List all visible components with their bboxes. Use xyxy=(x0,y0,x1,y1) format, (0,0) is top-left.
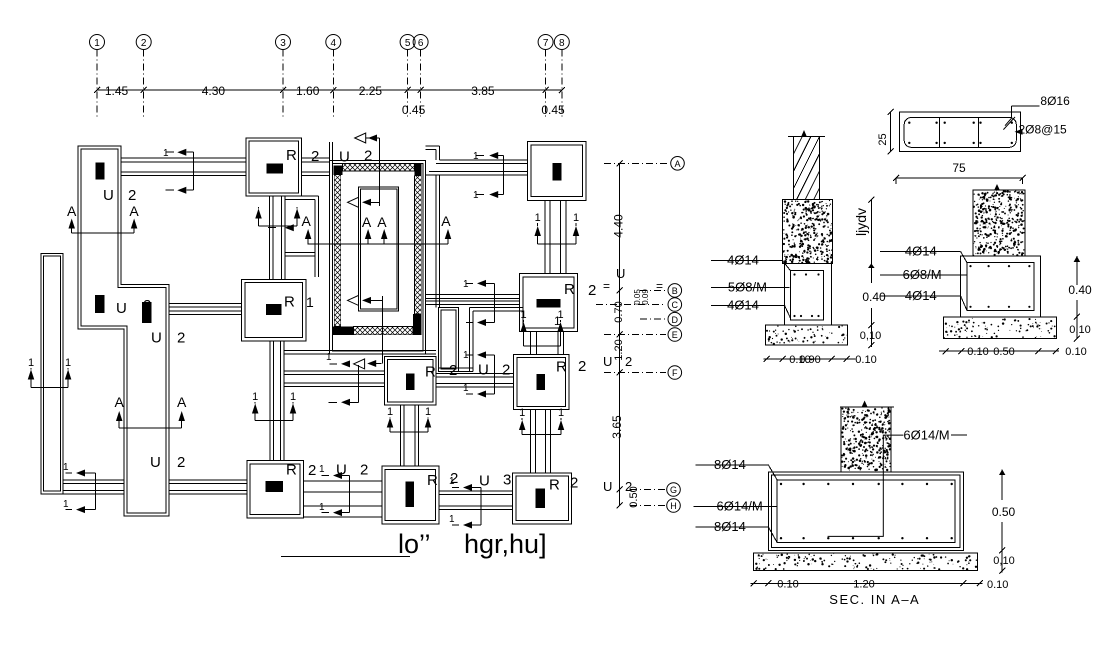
d3 footing box xyxy=(961,256,1041,317)
wall W11b xyxy=(284,370,385,372)
svg-text:2: 2 xyxy=(141,38,147,49)
wall W15 xyxy=(63,479,124,481)
svg-text:U: U xyxy=(603,354,612,369)
svg-text:A: A xyxy=(67,203,77,219)
svg-text:R: R xyxy=(284,294,295,311)
svg-text:0.45: 0.45 xyxy=(402,103,426,117)
svg-text:2: 2 xyxy=(588,282,596,299)
svg-text:2: 2 xyxy=(364,148,372,165)
svg-text:A: A xyxy=(302,213,312,229)
d2 label 5d8/M xyxy=(711,286,790,288)
footing pad top-right xyxy=(528,142,587,201)
svg-text:2: 2 xyxy=(578,358,586,375)
grid bubble 3 xyxy=(276,35,291,50)
svg-text:3: 3 xyxy=(503,472,511,489)
d4 rebar box xyxy=(777,480,955,543)
wall W21 xyxy=(439,367,474,369)
d2 column stipple xyxy=(783,200,833,264)
grid bubble 2 xyxy=(136,35,151,50)
wall W1 pad-to-R2 xyxy=(121,157,246,159)
shaft hatch band top xyxy=(343,164,415,171)
footing pad U2 tall left (inner) xyxy=(81,149,166,513)
svg-text:U: U xyxy=(616,266,625,281)
wall W3 shaft-to-topright xyxy=(439,159,527,161)
svg-text:1.45: 1.45 xyxy=(105,84,129,98)
section line A-A segment xyxy=(308,243,448,245)
svg-text:0.40: 0.40 xyxy=(862,290,886,304)
svg-text:0.50: 0.50 xyxy=(993,346,1014,358)
column black vert 4 xyxy=(405,482,414,508)
footing pad R1 mid-left xyxy=(242,279,306,341)
svg-text:R: R xyxy=(549,477,560,494)
svg-text:C: C xyxy=(672,300,679,310)
d2 base slab stipple xyxy=(766,325,848,345)
dim label 1.45 xyxy=(104,84,130,95)
svg-text:0.09: 0.09 xyxy=(641,289,650,305)
svg-text:25: 25 xyxy=(877,133,889,145)
svg-text:A: A xyxy=(129,203,139,219)
grid line C xyxy=(596,304,666,306)
wall stub W9a xyxy=(285,195,319,197)
top dimension line xyxy=(97,89,562,91)
svg-text:R: R xyxy=(564,281,575,298)
column black vert 2 xyxy=(406,373,415,390)
svg-text:1: 1 xyxy=(535,212,541,224)
svg-text:0.10: 0.10 xyxy=(1065,346,1086,358)
d2 wall top tick xyxy=(788,136,825,138)
wall stub W9b xyxy=(285,252,315,254)
section line 1-1 top arrow xyxy=(355,133,366,143)
svg-text:0,10: 0,10 xyxy=(1069,324,1090,336)
grid line F xyxy=(604,372,666,374)
wall W11c xyxy=(436,372,514,374)
column black vertical xyxy=(552,163,561,180)
svg-text:1: 1 xyxy=(63,462,69,473)
svg-text:2: 2 xyxy=(177,454,185,471)
svg-text:2: 2 xyxy=(308,462,316,479)
svg-text:7: 7 xyxy=(543,38,549,49)
svg-text:0.45: 0.45 xyxy=(541,103,565,117)
d3 dim line right xyxy=(1076,256,1078,285)
svg-text:0.10: 0.10 xyxy=(987,579,1008,591)
svg-text:R: R xyxy=(286,462,297,479)
wall W8 xyxy=(269,341,271,461)
svg-text:A: A xyxy=(377,214,387,230)
svg-text:1: 1 xyxy=(473,190,479,201)
svg-text:6Ø14/M: 6Ø14/M xyxy=(717,499,763,514)
wall W5 xyxy=(530,332,532,355)
wall W10 strip-to-R1 xyxy=(169,303,242,305)
svg-text:1: 1 xyxy=(63,499,69,510)
svg-text:8Ø16: 8Ø16 xyxy=(1040,94,1070,108)
svg-text:2: 2 xyxy=(128,187,136,204)
beam dim 25 xyxy=(890,112,892,151)
column black horiz 2 xyxy=(266,304,282,315)
shaft bottom cut assembly xyxy=(329,363,337,365)
svg-text:U: U xyxy=(603,479,612,494)
svg-text:1: 1 xyxy=(65,357,71,369)
wall W18 xyxy=(426,294,520,296)
svg-text:R: R xyxy=(427,472,438,489)
cut marks L5 xyxy=(452,487,459,489)
d3 dim 75 xyxy=(896,177,1023,179)
wall W16 xyxy=(169,479,247,481)
svg-text:lo’’: lo’’ xyxy=(398,529,431,559)
svg-text:1: 1 xyxy=(463,383,469,394)
svg-text:6Ø14/M: 6Ø14/M xyxy=(903,427,949,442)
svg-text:D: D xyxy=(672,315,679,325)
svg-text:2: 2 xyxy=(311,148,319,165)
svg-text:0,10: 0,10 xyxy=(860,330,881,342)
svg-text:U: U xyxy=(478,362,489,379)
d3 column stipple xyxy=(973,190,1025,256)
svg-text:U: U xyxy=(150,454,161,471)
svg-text:3: 3 xyxy=(280,38,286,49)
narrow room right of shaft xyxy=(439,308,459,372)
footing pad R2 row2 right xyxy=(519,273,577,331)
svg-text:U: U xyxy=(151,330,162,347)
svg-text:8: 8 xyxy=(559,38,565,49)
svg-text:SEC. IN A–A: SEC. IN A–A xyxy=(829,592,920,607)
narrow pier left xyxy=(41,253,63,494)
svg-text:8Ø14: 8Ø14 xyxy=(714,519,746,534)
footing pad R2 bottom-right xyxy=(513,473,572,524)
svg-text:A: A xyxy=(177,394,187,410)
svg-text:0.50: 0.50 xyxy=(628,486,640,507)
beam section inner xyxy=(904,118,1016,148)
shaft top-left stub xyxy=(329,142,331,161)
wall W3 step xyxy=(426,145,440,147)
svg-text:4: 4 xyxy=(331,38,337,49)
cut marks L4 xyxy=(322,475,329,477)
footing pad R2 mid xyxy=(385,357,437,406)
grid bubble 6 xyxy=(413,35,428,50)
shaft hatch band bottom xyxy=(354,326,413,334)
column C2 black xyxy=(95,295,105,313)
svg-text:hgr,hu]: hgr,hu] xyxy=(464,529,547,559)
wall W14 xyxy=(439,490,513,492)
svg-text:2: 2 xyxy=(177,330,185,347)
d4 footing outer xyxy=(768,472,963,551)
beam section outer xyxy=(900,112,1021,151)
svg-text:1: 1 xyxy=(163,148,169,159)
grid line D xyxy=(640,318,666,320)
footing pad R2 row1 xyxy=(246,138,302,196)
svg-text:ljydv: ljydv xyxy=(853,208,869,236)
svg-text:1.20: 1.20 xyxy=(853,579,874,591)
footing pad U2 tall left (outer) xyxy=(78,146,169,516)
svg-text:1: 1 xyxy=(473,151,479,162)
svg-text:E: E xyxy=(672,330,678,340)
d4 bottom dim xyxy=(751,582,983,584)
d2 footing box xyxy=(785,263,832,325)
svg-text:1: 1 xyxy=(94,38,100,49)
svg-text:2: 2 xyxy=(625,354,632,369)
cut marks L2 xyxy=(476,155,485,157)
d4 column stipple xyxy=(841,407,891,472)
svg-text:U: U xyxy=(116,300,127,317)
column C1 black xyxy=(96,163,105,180)
dim label 4.30 xyxy=(200,84,226,95)
wall W4 vertical right col xyxy=(544,200,546,273)
wall W11 below shaft xyxy=(284,350,436,352)
svg-text:2: 2 xyxy=(143,297,151,314)
svg-text:1: 1 xyxy=(558,407,564,419)
shaft outer rect xyxy=(330,161,426,355)
grid bubble 1 xyxy=(90,35,105,50)
dim label 3.85 xyxy=(470,84,496,95)
svg-text:3.65: 3.65 xyxy=(610,415,624,439)
svg-text:2: 2 xyxy=(570,475,578,492)
cut marks L1 xyxy=(166,151,174,153)
dim label 2.25 xyxy=(357,84,383,95)
d2 label 4d14 top xyxy=(711,260,783,262)
column black horiz xyxy=(536,299,560,308)
shaft upper cut arrows xyxy=(348,197,359,207)
svg-text:4Ø14: 4Ø14 xyxy=(905,244,937,259)
d3 base slab stipple xyxy=(943,317,1056,339)
cut marks L11 xyxy=(466,354,473,356)
d3 label 4d14 bottom xyxy=(880,295,961,297)
svg-text:U: U xyxy=(103,187,114,204)
grid line B xyxy=(640,289,666,291)
cut marks L10 xyxy=(466,282,473,284)
svg-text:1: 1 xyxy=(290,391,296,403)
d3 label 6d8/M xyxy=(880,274,967,276)
grid bubble 8 xyxy=(554,35,569,50)
svg-text:1.20: 1.20 xyxy=(613,339,625,360)
footing pad R2 bottom-mid xyxy=(382,466,439,524)
svg-text:H: H xyxy=(670,501,677,511)
grid bubble 5 xyxy=(400,35,415,50)
d3 bottom dim xyxy=(939,350,1059,352)
svg-text:75: 75 xyxy=(952,161,966,175)
shaft black corner BL xyxy=(333,326,354,335)
d3 rebar box xyxy=(967,263,1034,311)
grid bubble 7 xyxy=(538,35,553,50)
stair well inner rect xyxy=(358,187,398,311)
svg-text:A: A xyxy=(362,214,372,230)
svg-text:1: 1 xyxy=(252,391,258,403)
grid line G xyxy=(630,489,665,491)
d2 bottom dim xyxy=(764,358,856,360)
d4 label 8d14 top xyxy=(695,464,768,466)
svg-text:2: 2 xyxy=(502,362,510,379)
svg-text:1: 1 xyxy=(557,309,563,321)
beam rebar dots xyxy=(908,122,910,124)
svg-text:B: B xyxy=(672,286,678,296)
grid line A xyxy=(604,162,668,164)
d4 base slab stipple xyxy=(754,553,978,571)
column black vert 3 xyxy=(536,374,545,390)
svg-text:0.10: 0.10 xyxy=(777,579,798,591)
svg-text:4Ø14: 4Ø14 xyxy=(727,297,759,312)
svg-text:4.40: 4.40 xyxy=(612,214,626,238)
svg-text:0.50: 0.50 xyxy=(992,505,1016,519)
svg-text:4.30: 4.30 xyxy=(202,84,226,98)
d3 label 4d14 top xyxy=(880,251,961,253)
svg-text:4Ø14: 4Ø14 xyxy=(905,288,937,303)
wall W6 xyxy=(530,410,532,473)
svg-text:1: 1 xyxy=(573,212,579,224)
svg-text:=: = xyxy=(656,279,663,293)
svg-text:A: A xyxy=(674,159,680,169)
cut marks L3 xyxy=(65,472,72,474)
svg-text:1: 1 xyxy=(326,352,332,363)
svg-text:0.70: 0.70 xyxy=(613,301,625,322)
svg-text:1: 1 xyxy=(519,407,525,419)
svg-text:0.40: 0.40 xyxy=(1068,283,1092,297)
svg-text:1: 1 xyxy=(463,350,469,361)
d4 label 8d14 bottom xyxy=(695,526,768,528)
d4 column top line xyxy=(840,406,894,408)
d4 dim line right xyxy=(1001,469,1003,500)
svg-text:G: G xyxy=(670,485,677,495)
svg-text:0.90: 0.90 xyxy=(799,354,820,366)
svg-text:1: 1 xyxy=(319,464,325,475)
right grid dim line xyxy=(619,163,621,505)
grid line H xyxy=(630,505,665,507)
svg-text:=: = xyxy=(603,279,610,293)
wall W20 L-shape xyxy=(469,308,471,372)
svg-text:1: 1 xyxy=(387,406,393,418)
svg-text:0.10: 0.10 xyxy=(967,346,988,358)
svg-text:U: U xyxy=(479,473,490,490)
svg-text:1: 1 xyxy=(319,502,325,513)
svg-text:1: 1 xyxy=(28,357,34,369)
wall W7 below R2 xyxy=(269,196,271,279)
svg-text:1: 1 xyxy=(521,309,527,321)
shaft hatch band left xyxy=(334,174,340,326)
d2 dim line right xyxy=(870,200,872,283)
beam dividers xyxy=(938,118,940,148)
svg-text:5: 5 xyxy=(405,38,411,49)
svg-text:8Ø14: 8Ø14 xyxy=(714,457,746,472)
d4 label 6d14/M left xyxy=(694,505,778,507)
d2 label 4d14 bottom xyxy=(711,304,785,306)
wall W19 vertical xyxy=(435,175,437,307)
svg-text:5Ø8/M: 5Ø8/M xyxy=(728,279,767,294)
svg-text:2.25: 2.25 xyxy=(359,84,383,98)
column black horiz 3 xyxy=(266,481,284,492)
svg-text:1.60: 1.60 xyxy=(296,84,320,98)
svg-text:2Ø8@15: 2Ø8@15 xyxy=(1019,123,1068,137)
shaft black corner TL xyxy=(334,166,343,176)
svg-text:A: A xyxy=(441,213,451,229)
column R2a black xyxy=(266,163,283,173)
svg-text:3.85: 3.85 xyxy=(471,84,495,98)
wall W2 R2-to-shaft xyxy=(302,157,330,159)
title underline xyxy=(281,556,410,558)
svg-text:R: R xyxy=(556,359,567,376)
shaft lower cut arrows xyxy=(348,295,359,305)
svg-text:1: 1 xyxy=(449,476,455,487)
shaft black corner TR xyxy=(415,164,422,176)
svg-text:0,10: 0,10 xyxy=(993,555,1014,567)
wall W13 xyxy=(303,480,382,482)
svg-text:1: 1 xyxy=(425,406,431,418)
wall W12 xyxy=(399,405,401,466)
shaft black corner BR xyxy=(413,314,422,335)
svg-text:0.10: 0.10 xyxy=(855,354,876,366)
shaft hatch band right xyxy=(415,176,422,314)
d2 rebar box xyxy=(790,271,823,320)
svg-text:R: R xyxy=(286,147,297,164)
column C3 black xyxy=(142,302,152,323)
svg-text:2: 2 xyxy=(360,462,368,479)
svg-text:6: 6 xyxy=(418,38,424,49)
svg-text:6Ø8/M: 6Ø8/M xyxy=(903,267,942,282)
svg-text:1: 1 xyxy=(449,514,455,525)
svg-text:A: A xyxy=(115,394,125,410)
column black vert 5 xyxy=(536,489,546,508)
grid line E xyxy=(604,334,666,336)
svg-text:4Ø14: 4Ø14 xyxy=(727,253,759,268)
svg-text:1: 1 xyxy=(306,294,314,310)
svg-text:F: F xyxy=(672,368,678,378)
grid bubble 4 xyxy=(326,35,341,50)
footing pad R2 bottom-left xyxy=(247,461,303,518)
svg-text:1: 1 xyxy=(463,279,469,290)
svg-text:R: R xyxy=(425,364,436,381)
d3 column top tick xyxy=(994,184,1000,191)
dim label 1.60 xyxy=(295,84,321,95)
footing pad R2 row3 right xyxy=(514,354,569,409)
